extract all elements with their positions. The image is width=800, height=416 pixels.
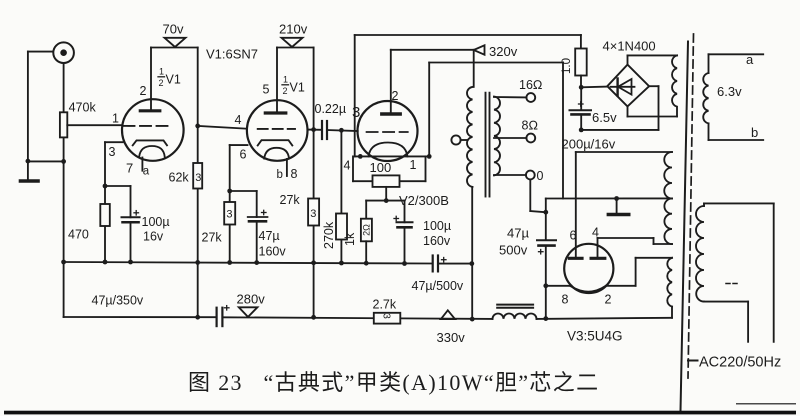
svg-text:V3:5U4G: V3:5U4G <box>567 329 623 344</box>
wire V1a cathode pin 3 <box>105 142 123 262</box>
junction at ground rail <box>254 260 259 265</box>
wire pin 8 to B+ <box>546 285 572 287</box>
op V1a cathode <box>133 140 167 145</box>
transformer OPT core <box>486 93 490 197</box>
wire lower rail (ground side) <box>64 316 216 318</box>
svg-text:27k: 27k <box>280 193 301 207</box>
wire grid pin 1 of V1a <box>67 124 122 126</box>
capacitor 200u/16v (6.5v filter) <box>562 87 618 151</box>
svg-text:70v: 70v <box>163 22 184 37</box>
capacitor 47u/500v (B+ filter) <box>499 226 556 319</box>
label half V1 (first triode) <box>159 67 181 89</box>
wire 70v tee <box>151 47 198 49</box>
junction 100u at ground rail <box>128 260 133 265</box>
transformer mains primary winding <box>696 206 704 302</box>
wire bridge DC- loop <box>581 86 659 130</box>
svg-text:330v: 330v <box>437 330 466 345</box>
wire filter cap to B+ node <box>438 263 472 265</box>
svg-text:3: 3 <box>381 313 392 319</box>
junction 0 terminal node <box>543 210 548 215</box>
wire cathode to 100u cap <box>105 186 131 217</box>
svg-text:4: 4 <box>592 226 599 240</box>
wire HV winding top lead <box>576 151 672 153</box>
resistor 62k <box>169 163 203 189</box>
svg-text:2Ω: 2Ω <box>361 224 371 236</box>
op V1b cathode <box>258 140 293 145</box>
node 210v marker <box>279 22 308 48</box>
label mains dashes <box>726 283 737 285</box>
capacitor 47u/350v (in-line decoupling) <box>92 294 230 327</box>
svg-text:4: 4 <box>344 159 351 173</box>
wire OPT primary bottom to B+ rail <box>471 187 473 319</box>
svg-text:5: 5 <box>263 83 270 97</box>
svg-text:a: a <box>746 52 754 67</box>
wire filament supply return <box>429 63 563 199</box>
op V2 plate <box>382 50 400 114</box>
op V2 300B envelope <box>358 101 418 161</box>
junction V1b cathode node <box>227 189 232 194</box>
svg-text:470: 470 <box>68 228 89 242</box>
wire 210v tee <box>277 47 314 49</box>
junction <box>61 159 66 164</box>
svg-text:160v: 160v <box>259 245 287 259</box>
svg-text:16v: 16v <box>143 230 164 244</box>
junction 62k line at B+ rail <box>195 315 200 320</box>
resistor 27k (V1b plate load) <box>280 193 320 226</box>
diode bridge 4x1N400 <box>603 39 656 107</box>
svg-text:8: 8 <box>291 167 298 181</box>
junction cathode return node <box>384 198 389 203</box>
svg-text:3: 3 <box>109 145 116 159</box>
wire V1b plate node down through 27k to lower rail <box>313 48 315 318</box>
svg-text:470k: 470k <box>69 101 97 115</box>
wire ground rail <box>64 262 432 264</box>
svg-text:500v: 500v <box>499 243 528 258</box>
svg-text:47µ/500v: 47µ/500v <box>412 279 464 293</box>
junction cathode node <box>103 184 108 189</box>
transformer 5v rectifier winding <box>667 258 672 307</box>
wire 470k down to ground rail <box>63 137 65 262</box>
svg-text:270k: 270k <box>322 221 336 249</box>
node 70v marker <box>163 22 186 48</box>
svg-text:1.0: 1.0 <box>561 58 573 74</box>
resistor 270k <box>322 214 347 250</box>
svg-text:320v: 320v <box>489 44 518 59</box>
wire mains lead upper <box>704 203 774 341</box>
junction on ground rail <box>61 260 66 265</box>
junction center tap <box>614 196 619 201</box>
wire hum pot loop <box>353 156 426 181</box>
wire bridge AC bottom to heater winding <box>628 106 678 116</box>
wire cathode to 47u cap <box>230 191 257 217</box>
resistor 27k (V1b cathode) <box>202 202 236 245</box>
wire bridge AC top to heater winding <box>628 55 678 64</box>
svg-text:47µ/350v: 47µ/350v <box>92 294 144 308</box>
wire coupling cap to V2 grid pin 3 <box>327 130 358 131</box>
svg-text:4×1N400: 4×1N400 <box>603 39 656 54</box>
op V1b grid (dashed) <box>258 128 295 130</box>
svg-text:2: 2 <box>159 78 164 88</box>
svg-text:6.3v: 6.3v <box>717 84 742 99</box>
capacitor 100u/16v <box>122 211 170 244</box>
transformer HV winding lower half <box>664 199 672 245</box>
svg-text:62k: 62k <box>169 171 190 185</box>
wire filament supply + (top rail) <box>355 35 581 156</box>
svg-text:2: 2 <box>283 86 288 96</box>
svg-text:4: 4 <box>235 113 242 127</box>
svg-text:0: 0 <box>537 169 544 183</box>
svg-text:b: b <box>277 169 283 181</box>
resistor 470k <box>60 101 97 138</box>
junction plate node to V1b grid <box>195 124 200 129</box>
wire filament line <box>355 155 430 157</box>
resistor 2.7k <box>373 298 401 324</box>
capacitor 47u/160v <box>248 210 287 258</box>
ground (center tap bar) <box>608 199 629 215</box>
capacitor 100u/160v (V2 cathode) <box>394 201 451 264</box>
junction at OPT primary bottom line <box>469 261 474 266</box>
junction V3 filament output <box>543 283 548 288</box>
svg-text:8Ω: 8Ω <box>522 119 539 133</box>
op V3 rectifier envelope <box>564 244 613 293</box>
svg-text:V1: V1 <box>290 81 305 95</box>
wire pin 4 to HV winding lower <box>598 238 673 244</box>
junction 270k at ground rail <box>339 261 344 266</box>
junction OPT primary at B+ rail <box>470 317 475 322</box>
op V1b triode envelope <box>247 100 308 161</box>
wire mains lead lower <box>704 302 748 342</box>
svg-text:2: 2 <box>140 84 147 98</box>
svg-text:210v: 210v <box>279 22 308 37</box>
svg-text:47µ: 47µ <box>259 229 280 243</box>
resistor 1.0 <box>561 49 587 88</box>
junction 62k at ground rail <box>195 260 200 265</box>
svg-text:100µ: 100µ <box>142 215 170 229</box>
inductor choke (in-line) <box>493 305 537 319</box>
svg-text:8: 8 <box>562 293 569 307</box>
resistor 100 hum balance <box>373 175 400 187</box>
wire grid node down through 270k <box>340 130 342 263</box>
svg-text:V2/300B: V2/300B <box>399 193 449 208</box>
wire HV center tap / ground line <box>546 197 672 199</box>
svg-text:1k: 1k <box>343 232 357 246</box>
op V1a plate <box>140 48 160 111</box>
junction ground node <box>26 159 31 164</box>
svg-text:3: 3 <box>310 208 316 220</box>
wire ground line to filter cap <box>545 199 547 240</box>
input jack J <box>53 42 74 63</box>
svg-text:b: b <box>751 125 758 140</box>
terminal primary tap <box>451 135 467 144</box>
svg-text:6: 6 <box>570 229 577 243</box>
wire plate node down through 62k to lower rail <box>197 48 199 318</box>
wire 0 terminal to ground node <box>530 179 546 212</box>
node 320v marker <box>474 44 518 59</box>
wire 6.3v terminal b <box>709 123 764 140</box>
svg-text:图 23 “古典式”甲类(A)10W“胆”芯之二: 图 23 “古典式”甲类(A)10W“胆”芯之二 <box>188 370 599 395</box>
op V3 plate pin 4 <box>591 238 605 258</box>
terminal 16 ohm <box>494 78 543 102</box>
ground <box>21 161 39 181</box>
op V3 filament arc <box>570 286 606 292</box>
junction 100u at ground rail <box>402 261 407 266</box>
op V1a heater <box>139 146 165 157</box>
wire hum tap <box>385 187 387 201</box>
page mark top right <box>736 403 796 405</box>
terminal 0 <box>494 169 544 183</box>
junction 27k at ground rail <box>311 260 316 265</box>
transformer PT core <box>681 42 689 411</box>
wire V1b cathode pin 6 <box>230 145 248 262</box>
svg-text:2: 2 <box>605 293 612 307</box>
svg-text:6.5v: 6.5v <box>592 110 617 125</box>
op V1b plate <box>265 48 286 114</box>
wire V1a plate to V1b grid pin 4 <box>198 126 247 129</box>
wire 6.3v terminal a <box>709 52 764 73</box>
svg-text:160v: 160v <box>423 234 451 248</box>
svg-text:V1: V1 <box>166 73 181 87</box>
svg-text:47µ: 47µ <box>507 226 529 241</box>
op V1a triode envelope <box>122 99 184 161</box>
svg-text:0.22µ: 0.22µ <box>315 102 347 116</box>
node 330v marker <box>437 310 466 345</box>
junction cap at DC- <box>579 127 584 132</box>
op V1b heater <box>264 148 289 159</box>
wire V1b plate to coupling cap <box>308 129 322 131</box>
wire input jack shield to ground <box>28 52 64 162</box>
transformer heater winding (bridge input) <box>672 55 677 116</box>
junction bridge DC+ <box>579 85 584 90</box>
junction 470 at ground rail <box>103 260 108 265</box>
wire lower rail (B+ side) <box>222 317 492 319</box>
op V3 plate pin 6 <box>569 152 582 258</box>
transformer PT core (dashed) <box>688 34 694 378</box>
capacitor 0.22u coupling <box>315 102 347 139</box>
svg-text:100µ: 100µ <box>423 219 451 233</box>
transformer HV winding upper half <box>664 152 672 199</box>
svg-text:7: 7 <box>126 161 133 176</box>
wire left end vertical joining rails <box>63 262 65 317</box>
capacitor 47u/500v (main filter, in-line) <box>412 256 464 294</box>
junction plate node at coupling wire <box>311 127 316 132</box>
junction filament pin 4 <box>358 154 363 159</box>
junction 27k line at B+ rail <box>311 315 316 320</box>
svg-text:AC220/50Hz: AC220/50Hz <box>699 355 781 371</box>
junction filament pin 1 <box>427 154 432 159</box>
svg-text:V1:6SN7: V1:6SN7 <box>206 47 258 62</box>
svg-text:100: 100 <box>370 160 392 175</box>
svg-text:3: 3 <box>195 172 201 184</box>
op V1a grid (dashed) <box>124 125 169 127</box>
terminal 8 ohm <box>494 119 538 143</box>
wire cathode return <box>366 200 404 202</box>
wire 47u to ground rail <box>256 221 258 262</box>
op V1b heater pin 8 stub <box>286 159 288 176</box>
node 280v marker <box>237 292 266 317</box>
wire jack to resistor 470k <box>63 63 65 112</box>
svg-text:280v: 280v <box>237 292 266 307</box>
wire pin 2 to 5v winding <box>606 258 672 286</box>
svg-text:1: 1 <box>159 67 164 77</box>
op V2 filament dome <box>369 143 408 157</box>
transformer OPT primary winding <box>467 87 473 187</box>
junction grid leak node <box>339 128 344 133</box>
label half V1 (second triode) <box>283 75 305 97</box>
junction 1k at ground rail <box>364 261 369 266</box>
svg-text:1: 1 <box>283 75 288 85</box>
resistor 470 <box>68 204 110 242</box>
svg-text:6: 6 <box>240 148 247 162</box>
bottom page bar <box>4 411 796 415</box>
junction B+ at filter vertical <box>543 316 548 321</box>
wire to bridge left corner <box>581 86 607 89</box>
svg-text:1: 1 <box>112 112 119 126</box>
svg-text:27k: 27k <box>202 231 223 245</box>
op V1a heater pin 7 stub <box>141 158 143 171</box>
label AC220/50Hz <box>688 355 781 371</box>
svg-text:2.7k: 2.7k <box>373 298 397 312</box>
wire 100u to ground rail <box>130 222 132 262</box>
wire 5v winding bottom to B+ rail <box>671 307 673 318</box>
op V2 grid (dashed) <box>367 131 408 133</box>
svg-text:3: 3 <box>226 209 232 221</box>
transformer OPT secondary winding <box>494 97 500 176</box>
svg-text:1: 1 <box>410 158 417 172</box>
resistor 1k <box>343 201 372 264</box>
svg-text:16Ω: 16Ω <box>519 78 543 92</box>
svg-text:a: a <box>143 166 150 178</box>
wire V2 plate to OPT primary <box>391 50 474 87</box>
transformer 6.3v winding <box>703 73 708 123</box>
svg-text:200µ/16v: 200µ/16v <box>562 137 616 152</box>
junction at ground rail <box>227 260 232 265</box>
svg-text:2: 2 <box>392 89 399 103</box>
wire B+ rail to rectifier <box>537 318 673 319</box>
